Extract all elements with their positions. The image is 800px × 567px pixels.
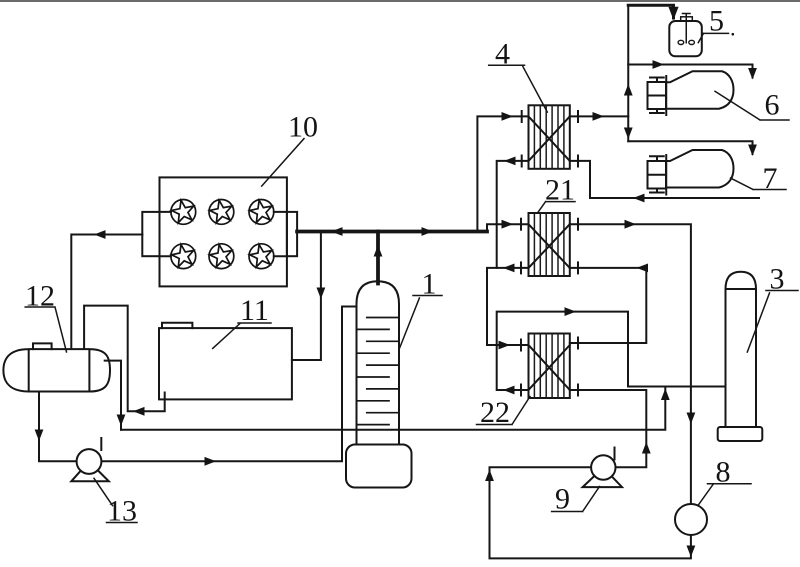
heat exchanger 21 cross	[529, 224, 570, 268]
wire: pump 9 discharge up into exchanger 22 bottom-right	[570, 390, 647, 467]
flange tick at exchanger 21 top-right	[577, 219, 579, 230]
pump 13 tick	[100, 438, 102, 450]
column 1 sump	[346, 445, 412, 488]
svg-text:6: 6	[765, 89, 780, 122]
arrow left on tank 11 outlet	[133, 407, 145, 416]
wire: thick riser from column 1 dome to header	[376, 232, 380, 284]
arrow on header pointing right toward exchanger 4	[422, 227, 434, 236]
column 3 shell	[726, 289, 757, 427]
svg-text:21: 21	[545, 174, 575, 207]
arrow right on pump 13 discharge	[205, 457, 217, 466]
label 1 leader	[400, 296, 442, 348]
label 4 leader	[489, 65, 548, 112]
fan F1	[170, 198, 196, 224]
heat exchanger 21 body	[529, 213, 570, 276]
label 12 leader	[25, 307, 66, 352]
column 3 dome	[726, 272, 757, 289]
vessel 7 pump block	[648, 161, 667, 189]
label 10 leader	[262, 139, 304, 187]
wire: exchanger 4 top-right outlet to main riser junction	[570, 115, 628, 117]
wire: main riser x=628 from vessel7 line up to top corner	[627, 5, 629, 141]
arrow right on transfer line to column 3	[565, 307, 577, 316]
tank 11	[159, 328, 292, 399]
pump 9 triangle	[583, 468, 622, 488]
svg-text:9: 9	[555, 483, 570, 516]
svg-text:3: 3	[770, 263, 785, 296]
pump 9 tick	[614, 448, 616, 460]
flange tick at exchanger 22 top-left	[520, 340, 522, 351]
arrow left on return line	[633, 194, 645, 203]
wire: branch to vessel 7 inlet	[628, 141, 752, 154]
label 6 leader	[715, 91, 789, 120]
wire: tank 12 bottom outlet down to pump 13	[39, 392, 77, 462]
arrow down on long drop	[687, 413, 696, 425]
flange tick at exchanger 4 top-right	[577, 111, 579, 122]
svg-text:10: 10	[288, 111, 318, 144]
stirred vessel 5 body	[669, 21, 702, 56]
wire: tank 11 bottom outlet over to tank 12 top	[84, 306, 165, 412]
arrow into exchanger 21 top-left	[502, 220, 514, 229]
fan F3	[248, 198, 274, 224]
svg-text:7: 7	[763, 162, 778, 195]
flange tick at exchanger 21 top-left	[520, 219, 522, 230]
heat exchanger 22 hatching	[534, 334, 564, 399]
arrow down into vessel 6	[748, 68, 757, 80]
label 21 leader	[538, 202, 576, 213]
heat exchanger 4 body	[529, 105, 570, 169]
wire: long horizontal line y=429.7 rising into column 3 feed line	[121, 387, 665, 430]
svg-text:11: 11	[240, 294, 269, 327]
air cooler 10 header stubs	[160, 212, 287, 256]
wire: exchanger 22 top-right outlet up into exchanger 21 bottom-right	[570, 268, 647, 343]
arrow into exchanger 21 bottom-right	[637, 264, 649, 273]
svg-text:8: 8	[716, 456, 731, 489]
vessel 5 agitator shaft	[683, 14, 691, 43]
wire: exchanger 21 top-right outlet right and long drop to trap 8	[570, 224, 691, 504]
arrow up on column riser	[374, 245, 383, 257]
arrow out of exchanger 4 top-right	[593, 112, 605, 121]
arrow out of exchanger 22 bottom-left	[503, 386, 515, 395]
wire: tank 12 side outlet down to long cross line	[105, 361, 121, 430]
wire: exchanger 21 bottom-left outlet down into exchanger 22 top-left	[487, 268, 529, 345]
vessel 7 pump ticks	[650, 156, 664, 192]
svg-text:13: 13	[107, 495, 137, 528]
wire: trap 8 outlet loop to pump 9 suction	[490, 467, 691, 558]
label 5 leader	[698, 33, 728, 42]
air cooler 10 box	[160, 177, 287, 286]
arrow up at end of long line	[661, 389, 670, 401]
wire: thick top run to stirred vessel 5	[628, 5, 673, 18]
arrow up on riser	[624, 84, 633, 96]
arrow out of exchanger 4 bottom-left	[504, 157, 516, 166]
pump 13 triangle	[71, 462, 109, 482]
vessel 6 body	[666, 71, 733, 109]
vessel 6 flange	[665, 76, 667, 115]
flange tick at exchanger 4 bottom-right	[577, 156, 579, 167]
vessel 7 flange	[665, 155, 667, 195]
vessel 6 pump block	[648, 82, 667, 109]
arrow out of exchanger 21 top-right	[625, 220, 637, 229]
tank 12 body	[3, 349, 110, 391]
column 1 shell	[357, 313, 400, 444]
label 3 leader	[747, 291, 798, 353]
fan F6	[248, 242, 274, 268]
tank 11 top lid rect	[162, 323, 192, 328]
fan F4	[170, 242, 196, 268]
tank 12 top nozzle	[33, 343, 52, 349]
trap 8 ellipse	[675, 504, 707, 535]
column 1 dome	[357, 281, 400, 313]
heat exchanger 22 body	[529, 334, 570, 399]
pump 9 circle	[591, 455, 615, 479]
column 1 trays	[357, 318, 400, 425]
arrow down into bottom corner	[687, 546, 696, 558]
flange tick at exchanger 4 bottom-left	[521, 156, 523, 167]
arrow into exchanger 22 top-left	[499, 341, 511, 350]
air cooler 10 right nozzle	[287, 212, 297, 256]
flange tick at exchanger 22 bottom-right	[577, 385, 579, 396]
arrow into exchanger 4 top-left	[502, 112, 514, 121]
svg-text:4: 4	[495, 38, 510, 71]
arrow down into vessel 5	[668, 7, 678, 20]
heat exchanger 4 hatching	[534, 105, 564, 169]
flange tick at exchanger 21 bottom-right	[577, 262, 579, 273]
scan border artifact top edge	[0, 0, 800, 2]
arrow up on pump 9 suction riser	[485, 470, 494, 482]
flange tick at exchanger 22 bottom-left	[520, 385, 522, 396]
pump 13 circle	[77, 449, 102, 474]
arrow right on vessel 6 branch	[653, 60, 665, 69]
wire: condensate line from cooler 10 left nozzle to tank 12 top	[71, 235, 142, 349]
air cooler 10 left nozzle	[142, 212, 159, 256]
arrow down on tank 11 branch	[317, 288, 326, 300]
heat exchanger 21 hatching	[534, 213, 564, 276]
flange tick at exchanger 21 bottom-left	[520, 262, 522, 273]
label 22 leader	[477, 397, 531, 425]
svg-text:1: 1	[422, 268, 437, 301]
arrow down on riser	[624, 128, 633, 140]
vessel 5 neck	[681, 17, 693, 21]
arrow down into vessel 7	[748, 145, 757, 157]
label 11 leader	[213, 323, 271, 348]
label 9 leader	[552, 487, 600, 512]
label 7 leader	[731, 178, 787, 190]
flange tick at exchanger 4 top-left	[521, 111, 523, 122]
vessel 6 pump ticks	[650, 78, 664, 114]
fan F2	[208, 198, 234, 224]
arrow down on pump 13 suction	[35, 430, 44, 442]
svg-text:22: 22	[480, 396, 510, 429]
wire: exchanger 22 bottom-left outlet up over and to column 3	[497, 312, 726, 390]
arrow on header pointing left toward cooler 10	[331, 227, 343, 236]
fan F5	[208, 242, 234, 268]
wire: pump 13 discharge up to column 1 top feed	[101, 307, 356, 462]
heat exchanger 22 cross	[529, 345, 570, 390]
svg-text:12: 12	[25, 280, 55, 313]
vessel 7 body	[666, 150, 733, 188]
wire: branch to vessel 6 inlet	[628, 65, 752, 78]
vessel 5 impeller	[678, 40, 684, 44]
flange tick at exchanger 22 top-right	[577, 338, 579, 349]
svg-text:5: 5	[709, 5, 724, 38]
arrow up on pump 9 discharge riser	[642, 442, 651, 454]
wire: exchanger 4 bottom-left outlet down to 21 bottom-left line	[497, 161, 529, 268]
wire: thick overhead vapor header from column 1 to cooler 10	[297, 230, 487, 234]
column 3 base	[718, 427, 763, 441]
wire: branch from header down into tank 11 right side	[292, 232, 321, 361]
arrow out of exchanger 21 bottom-left	[503, 264, 515, 273]
label 13 leader	[94, 478, 137, 522]
arrow on condensate line (left)	[94, 230, 106, 239]
wire: header step feed to exchanger 21 top-left inlet	[487, 224, 529, 230]
label 8 leader	[698, 484, 751, 506]
wire: return line y=198 from right side to exchanger 4 bottom-right	[570, 161, 759, 198]
wire: header branch up to exchanger 4 top-left inlet	[477, 116, 528, 230]
label 5 dot	[732, 33, 735, 36]
arrow down on tank 12 side outlet	[117, 415, 126, 427]
heat exchanger 4 cross	[529, 116, 570, 160]
